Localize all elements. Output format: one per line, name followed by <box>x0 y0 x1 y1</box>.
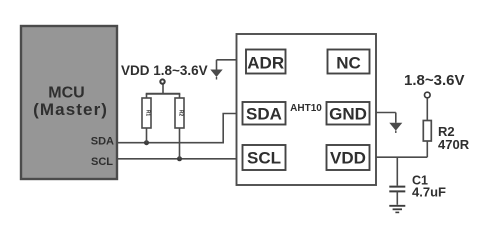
svg-text:SCL: SCL <box>247 149 281 168</box>
wire terminal to R2 <box>426 98 428 121</box>
supply terminal circle <box>425 92 431 98</box>
svg-text:SDA: SDA <box>91 136 114 148</box>
capacitor C1 plates <box>389 187 405 192</box>
svg-text:MCU: MCU <box>48 85 84 102</box>
svg-text:NC: NC <box>336 54 361 73</box>
wire C1 to ground <box>396 191 398 204</box>
svg-text:4.7uF: 4.7uF <box>412 185 446 200</box>
wire R2 to VDD bus <box>426 141 428 157</box>
power arrow at ADR <box>210 60 222 80</box>
svg-text:ADR: ADR <box>247 54 284 73</box>
wire GND pin <box>376 112 396 114</box>
pin box SCL <box>243 145 286 170</box>
svg-text:R2: R2 <box>178 110 184 117</box>
wire C1 branch <box>396 157 398 185</box>
junction dot SCL / pull-up <box>177 156 182 161</box>
pin box VDD <box>327 145 370 170</box>
wire VDD stem to terminal <box>162 84 164 94</box>
ground symbol at C1 <box>389 206 405 213</box>
wire ADR <box>217 59 237 61</box>
pin box SDA <box>243 102 286 125</box>
junction dot SDA / pull-up <box>144 140 149 145</box>
svg-text:SDA: SDA <box>246 104 282 123</box>
wire SDA bus from MCU to SDA pin <box>117 114 237 143</box>
svg-text:470R: 470R <box>438 137 470 152</box>
wire SCL bus from MCU to SCL pin <box>117 158 237 160</box>
MCU (Master) block <box>21 26 117 179</box>
svg-text:SCL: SCL <box>91 156 113 168</box>
svg-text:VDD: VDD <box>330 149 366 168</box>
ground arrow at GND <box>389 113 402 134</box>
svg-text:VDD 1.8~3.6V: VDD 1.8~3.6V <box>121 63 208 78</box>
svg-text:AHT10: AHT10 <box>290 103 322 114</box>
resistor R2 <box>423 121 431 142</box>
svg-text:1.8~3.6V: 1.8~3.6V <box>404 72 464 89</box>
resistor RP1 (left pull-up) <box>142 94 151 143</box>
svg-text:(Master): (Master) <box>33 100 108 119</box>
terminal circle VDD <box>160 79 164 83</box>
pin box GND <box>327 102 370 125</box>
svg-text:GND: GND <box>329 104 367 123</box>
svg-text:R1: R1 <box>145 110 151 117</box>
pin box NC <box>328 50 370 74</box>
pin box ADR <box>246 50 286 74</box>
wire VDD pin <box>376 156 427 158</box>
wire pull-up top bar <box>146 93 181 95</box>
resistor RP2 (right pull-up) <box>175 94 184 159</box>
IC U1 AHT10 outline <box>237 34 377 185</box>
